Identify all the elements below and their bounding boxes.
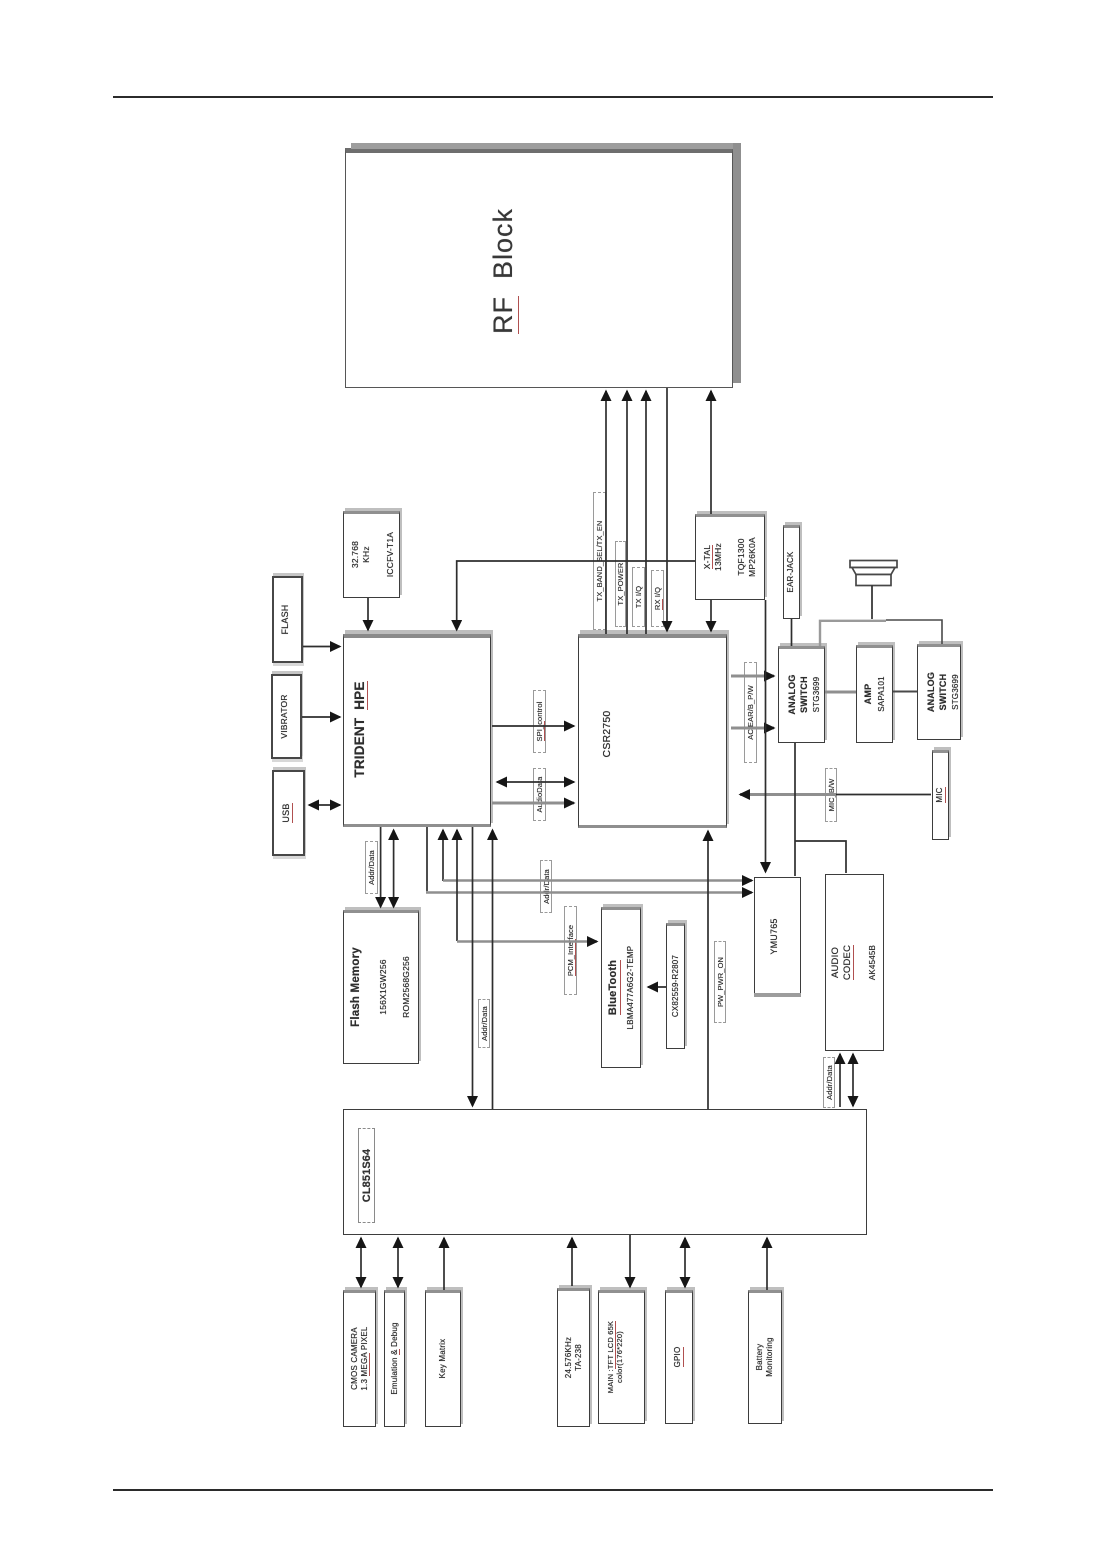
wire CX82559 to BlueTooth	[648, 986, 666, 988]
net label TX I/Q	[632, 567, 645, 627]
text GPIO	[672, 1292, 685, 1422]
vibrator VIBRATOR	[271, 674, 302, 759]
oscillator 24.576KHz TA-238	[557, 1288, 590, 1427]
baseband CSR2750	[578, 634, 727, 828]
text EAR-JACK	[784, 527, 798, 617]
wire branch to codec top	[795, 841, 846, 873]
wire AC/EAR low	[731, 727, 774, 730]
text TRIDENT HPE	[349, 634, 371, 825]
wire speaker bus left	[820, 621, 886, 646]
wire USB to TRIDENT	[309, 804, 340, 806]
connector EAR-JACK	[783, 525, 800, 619]
wire TRIDENT to CL851S64 b	[492, 830, 494, 1109]
text 156X1GW256	[377, 912, 389, 1062]
debug Emulation & Debug	[384, 1290, 405, 1427]
camera CMOS CAMERA 1.3 MEGA PIXEL	[343, 1290, 376, 1427]
wire EAR-JACK to switch1	[791, 619, 793, 646]
battery Battery Monitoring	[748, 1290, 782, 1424]
text ANALOG SWITCH 1	[785, 648, 812, 741]
wire VIBRATOR to TRIDENT	[302, 716, 340, 718]
label CL851S64	[358, 1128, 375, 1223]
wire TRIDENT down pin1	[426, 827, 428, 891]
text VIBRATOR	[277, 676, 291, 757]
net label PCM_Interface	[564, 906, 577, 995]
module BlueTooth LBMA477A6G2	[601, 907, 641, 1068]
text SAPA101	[876, 647, 888, 741]
wire TRIDENT to CL851S64 a	[472, 827, 474, 1106]
top page rule	[113, 96, 993, 98]
oscillator 32.768KHz ICCFV-T1A	[343, 511, 400, 598]
text 24.576KHz TA-238	[562, 1290, 585, 1425]
wire RX I/Q	[666, 388, 668, 631]
wire AMP to switch2	[893, 691, 917, 693]
text Battery Monitoring	[753, 1292, 776, 1422]
net label SPI_control	[533, 690, 546, 753]
text BlueTooth	[606, 909, 622, 1066]
text Key Matrix	[436, 1292, 449, 1425]
text FLASH	[279, 578, 293, 661]
amplifier AMP SAPA101	[856, 645, 893, 743]
text CMOS CAMERA	[347, 1292, 373, 1425]
wire CL851S64 to LCD	[629, 1235, 631, 1287]
wire SPI_control	[492, 725, 574, 727]
text ROM2568G256	[400, 912, 412, 1062]
text ICCFV-T1A	[384, 513, 397, 596]
audio codec AK4545B	[825, 874, 884, 1051]
RF block shadow top	[351, 143, 741, 149]
wire AudioData bus	[492, 802, 574, 805]
memory Flash Memory	[343, 910, 419, 1064]
wire CL851S64 to Emulation	[397, 1238, 399, 1287]
net label Addr/Data 4	[823, 1057, 835, 1108]
controller CL851S64 big block	[343, 1109, 867, 1235]
analog switch STG3699 no.2	[917, 644, 961, 740]
wire TX_POWER	[626, 391, 628, 634]
net label AudioData	[533, 768, 546, 821]
processor TRIDENT HPE	[343, 634, 491, 827]
crystal X-TAL 13MHz TQF1300	[695, 514, 765, 600]
wire TX I/Q	[645, 391, 647, 634]
net label Addr/Data 1	[365, 841, 378, 894]
wire PCM bus to BlueTooth	[457, 940, 597, 943]
analog switch STG3699 no.1	[778, 646, 825, 743]
RF block shadow right	[733, 143, 741, 383]
wire speaker line right	[886, 620, 942, 644]
wire switch1 to YMU765	[794, 743, 796, 876]
wire CSR2750 to CL851S64	[707, 831, 709, 1109]
text STG3699 2	[950, 646, 962, 738]
wire CL851S64 to Battery	[766, 1238, 768, 1290]
sound chip YMU765	[754, 877, 801, 996]
wire X-TAL to TRIDENT	[457, 561, 695, 630]
net label AC/EAR/B_P/W	[744, 662, 757, 763]
wire switch1 to AMP	[825, 691, 856, 694]
wire FLASH to TRIDENT	[303, 646, 340, 648]
wire 32.768KHz to TRIDENT	[367, 598, 369, 630]
memory FLASH	[272, 576, 303, 663]
YMU765 bottom shade	[754, 993, 801, 997]
wire TRIDENT down pin2	[442, 830, 444, 881]
wire MIC bus gray	[740, 793, 836, 796]
text YMU765	[768, 879, 782, 994]
wire AC/EAR high	[731, 675, 774, 678]
text Flash Memory	[348, 912, 365, 1062]
wire CL851S64 to 24.576KHz	[571, 1238, 573, 1286]
wire CL851S64 to GPIO	[684, 1238, 686, 1287]
net label Addr/Data 2	[540, 860, 552, 913]
net label TX_POWER	[615, 541, 626, 627]
text STG3699 1	[811, 648, 823, 741]
text TQF1300 MP26K0A	[735, 516, 759, 598]
wire X-TAL to CSR2750	[710, 600, 712, 631]
text AUDIO CODEC	[829, 876, 854, 1049]
wire CL851S64 to CMOS camera	[360, 1238, 362, 1287]
wire TX_BAND_SEL/TX_EN	[605, 391, 607, 634]
bottom page rule	[113, 1489, 993, 1491]
text 32.768 KHz	[348, 513, 373, 596]
wire speaker stem	[871, 586, 873, 620]
text AMP	[862, 647, 875, 741]
text CSR2750	[600, 648, 616, 820]
net label PW_PWR_ON	[714, 941, 726, 1023]
wire TRIDENT down pin3	[456, 830, 458, 941]
text MAIN TFT LCD	[603, 1292, 627, 1422]
text CX82559-R2807	[669, 925, 682, 1047]
net label RX I/Q	[651, 570, 664, 627]
text X-TAL 13MHz	[701, 516, 725, 598]
wire CL851S64 to Key Matrix	[443, 1238, 445, 1290]
chip CX82559-R2807	[666, 923, 685, 1049]
wire codec Addr/Data a	[839, 1054, 841, 1107]
microphone MIC	[932, 750, 949, 840]
gpio GPIO	[665, 1290, 693, 1424]
text RF Block	[487, 160, 521, 382]
wire bus to YMU765 low	[426, 891, 752, 894]
wire MIC line dark	[836, 794, 931, 796]
wire bus to YMU765 high	[443, 879, 752, 882]
wire AudioData bidir	[497, 781, 574, 783]
keypad Key Matrix	[425, 1290, 461, 1427]
text ANALOG SWITCH 2	[924, 646, 951, 738]
wire X-TAL right to YMU765	[765, 600, 767, 872]
net label Addr/Data 3	[478, 999, 490, 1048]
block RF Block	[345, 148, 733, 388]
text LBMA477A6G2-TEMP	[624, 909, 637, 1066]
text MIC	[934, 752, 947, 838]
net label TX_BAND_SEL/TX_EN	[593, 492, 606, 630]
port USB	[272, 770, 305, 856]
text USB	[280, 772, 294, 854]
wire TRIDENT to FlashMemory a	[380, 827, 382, 907]
net label MIC_B/W	[825, 768, 837, 822]
wire TRIDENT to FlashMemory b	[393, 830, 395, 907]
display MAIN TFT LCD	[598, 1290, 645, 1424]
text Emulation Debug	[388, 1292, 401, 1425]
text AK4545B	[867, 876, 879, 1049]
wire X-TAL to RF	[710, 391, 712, 514]
wire codec Addr/Data b	[852, 1054, 854, 1106]
